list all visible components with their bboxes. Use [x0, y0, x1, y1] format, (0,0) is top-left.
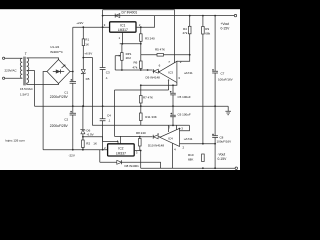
node +22V C3 column	[102, 26, 104, 28]
svg-text:C5 100uF: C5 100uF	[178, 95, 191, 99]
capacitor C1	[70, 72, 76, 107]
wire B plus input	[141, 83, 177, 86]
diode D10	[140, 135, 160, 139]
wire D7 rail	[103, 15, 155, 17]
capacitor C3	[100, 27, 106, 106]
node R10 bottom	[202, 167, 204, 169]
node R3 bottom	[140, 43, 142, 45]
wire +22V riser from bridge	[70, 27, 73, 71]
wire adj to R3	[120, 43, 141, 45]
svg-text:2K2: 2K2	[126, 56, 132, 60]
svg-text:1.5A*2: 1.5A*2	[20, 93, 29, 97]
capacitor C8	[212, 106, 218, 168]
wire IC2 pin1 stub	[119, 136, 121, 143]
top letterbox bar	[0, 0, 240, 9]
wire IC2 adj line	[115, 135, 140, 137]
svg-text:C6 100uF: C6 100uF	[178, 113, 191, 117]
wire IC1 adj stub	[121, 32, 123, 44]
svg-text:220V/AC: 220V/AC	[5, 69, 18, 73]
wire R3-R5 link	[140, 44, 142, 55]
node C8 bottom	[214, 167, 216, 169]
svg-text:D7 IN4001: D7 IN4001	[122, 11, 138, 15]
svg-text:LM317: LM317	[118, 28, 128, 32]
svg-text:0-15V: 0-15V	[218, 157, 228, 161]
resistor R7	[140, 85, 143, 106]
svg-text:LM337: LM337	[116, 151, 126, 155]
node C5 ground	[172, 105, 174, 107]
svg-text:IN4007*4: IN4007*4	[50, 50, 63, 54]
transformer T primary winding	[20, 58, 22, 78]
wire tracking line y125.4	[92, 125, 189, 131]
resistor R5	[141, 54, 190, 57]
wire secondary top tap to bridge	[27, 58, 59, 60]
wire primary upper	[5, 57, 23, 59]
-22V rail	[43, 149, 108, 151]
svg-text:100uF/16V: 100uF/16V	[217, 139, 232, 143]
svg-text:2200uF/25V: 2200uF/25V	[50, 124, 69, 128]
capacitor C7	[212, 16, 218, 107]
wire IC1 out jog	[136, 16, 155, 28]
svg-text:+22V: +22V	[76, 21, 83, 25]
svg-text:IC4: IC4	[168, 136, 173, 140]
resistor R2	[82, 137, 85, 150]
svg-text:kqinc 126 com: kqinc 126 com	[6, 138, 26, 142]
svg-text:-6.9V: -6.9V	[87, 132, 94, 136]
output terminal minus	[235, 167, 237, 169]
node wire B	[140, 84, 142, 86]
zener D5	[81, 58, 86, 107]
diode D8	[117, 160, 122, 164]
svg-text:47k: 47k	[183, 31, 188, 35]
svg-text:R2: R2	[86, 141, 90, 145]
capacitor C5	[170, 85, 176, 106]
svg-text:C1: C1	[64, 91, 68, 95]
svg-text:uA741: uA741	[184, 137, 193, 141]
ground rail	[35, 105, 229, 107]
bottom letterbox bar	[0, 170, 240, 180]
node D7 stub top rail	[102, 15, 104, 17]
wire bridge minus corner down to -22V rail	[43, 72, 47, 150]
svg-text:68K: 68K	[188, 158, 193, 162]
node C7 ground	[214, 105, 216, 107]
capacitor C4	[100, 106, 106, 150]
resistor R3	[140, 27, 143, 44]
svg-text:R7 47K: R7 47K	[143, 95, 153, 99]
svg-text:D5: D5	[86, 77, 90, 81]
output terminal plus	[234, 14, 236, 16]
svg-text:uA741: uA741	[184, 71, 193, 75]
resistor R1	[82, 27, 84, 57]
capacitor C2	[70, 106, 76, 150]
svg-text:C3: C3	[106, 71, 110, 75]
input terminal upper	[3, 57, 5, 59]
input terminal lower	[3, 77, 5, 79]
op-amp IC4	[160, 128, 180, 146]
node R7 bottom	[140, 105, 142, 107]
svg-text:0-15V: 0-15V	[221, 26, 231, 30]
node R1 top	[82, 26, 84, 28]
wire opamp V+ top	[103, 10, 175, 64]
-V output rail	[141, 167, 235, 169]
svg-text:IC3: IC3	[168, 70, 173, 74]
svg-text:R11 33K: R11 33K	[145, 115, 156, 119]
node C5 top	[172, 84, 174, 86]
node R3 top	[140, 26, 142, 28]
wire -6.9V link	[83, 137, 118, 144]
svg-text:1K: 1K	[93, 141, 97, 145]
svg-text:D10 IN4148: D10 IN4148	[148, 144, 164, 148]
svg-text:.1: .1	[105, 76, 108, 80]
wire center tap down	[27, 71, 35, 107]
node C4 bottom	[102, 149, 104, 151]
wire R4 node to opamp pin2	[177, 55, 190, 62]
bridge inner diode symbol	[53, 65, 65, 74]
node C7 top	[214, 15, 216, 17]
svg-text:R8 240: R8 240	[136, 131, 146, 135]
resistor R6	[140, 55, 143, 70]
potentiometer RP1	[115, 44, 123, 70]
ground symbol right end	[225, 106, 231, 115]
node tracking pin3	[179, 128, 181, 130]
node +6.9V	[82, 57, 84, 59]
zener D6	[81, 106, 86, 150]
svg-text:C7: C7	[221, 72, 225, 76]
wire IC2 output	[134, 151, 141, 169]
svg-text:.1: .1	[108, 119, 111, 123]
node IC2 out	[140, 150, 142, 152]
wire IC4 pin2 line	[180, 143, 216, 145]
bridge rectifier D1-4 diamond	[47, 60, 70, 84]
node R2 bottom	[82, 149, 84, 151]
wire C pin4 line	[115, 80, 169, 136]
diode D9	[153, 69, 160, 73]
wire +6.9V over and down	[83, 58, 92, 126]
node C3 ground	[102, 105, 104, 107]
svg-text:T: T	[25, 52, 27, 56]
node R4 top	[189, 15, 191, 17]
diode D7	[115, 14, 120, 18]
node wire A D9 side	[147, 69, 149, 71]
wire D8 branch	[100, 150, 161, 169]
node C1 ground	[72, 105, 74, 107]
node C8 tap	[214, 143, 216, 145]
node RP1 bottom join	[121, 69, 123, 71]
IC1 regulator box	[110, 22, 136, 32]
node -6.9V	[82, 136, 84, 138]
resistor R8	[139, 137, 142, 151]
svg-text:47k: 47k	[133, 65, 138, 69]
svg-text:C2: C2	[64, 118, 68, 122]
svg-text:C4: C4	[107, 114, 111, 118]
svg-text:15.5V/AC: 15.5V/AC	[20, 87, 34, 91]
node R4 bottom	[189, 54, 191, 56]
wire secondary bottom tap to bridge	[27, 84, 59, 85]
wire A adj network	[115, 69, 152, 71]
wire primary lower	[5, 77, 23, 79]
node bridge plus	[72, 71, 74, 73]
node C6 bottom	[172, 125, 174, 127]
svg-text:-22V: -22V	[69, 154, 75, 158]
resistor R10	[202, 154, 205, 162]
svg-text:IC1: IC1	[120, 24, 125, 28]
svg-text:2200uF/25V: 2200uF/25V	[50, 95, 69, 99]
svg-text:IC2: IC2	[118, 147, 123, 151]
+V output rail	[155, 15, 235, 17]
svg-text:1K: 1K	[85, 43, 89, 47]
svg-text:R6: R6	[134, 61, 138, 65]
svg-text:68k: 68k	[205, 31, 210, 35]
node R9 top	[202, 15, 204, 17]
node R8 top	[139, 136, 141, 138]
svg-text:R5 47K: R5 47K	[155, 48, 165, 52]
node C2 bottom	[72, 149, 74, 151]
node adj	[122, 43, 124, 45]
op-amp IC3	[159, 61, 177, 82]
svg-text:R1: R1	[85, 37, 89, 41]
resistor R4	[188, 16, 191, 55]
svg-text:D9 IN4148: D9 IN4148	[146, 76, 161, 80]
wire D7 column	[102, 10, 104, 27]
node wire A R6	[140, 69, 142, 71]
svg-text:D8 IN4001: D8 IN4001	[125, 164, 140, 168]
wire IC4 pin4 stub	[172, 143, 174, 168]
transformer T secondary winding	[27, 58, 29, 85]
node D6 top	[82, 105, 84, 107]
svg-text:U1-4/4: U1-4/4	[50, 45, 59, 49]
svg-text:100uF/16V: 100uF/16V	[218, 78, 233, 82]
wire +22V to IC1 pin3	[73, 26, 110, 28]
svg-text:R3 240: R3 240	[145, 37, 155, 41]
wire IC4 pin7 stub	[168, 125, 170, 132]
svg-text:-Vout: -Vout	[218, 153, 226, 157]
node R10 tap	[202, 143, 204, 145]
resistor R9	[202, 16, 205, 144]
transformer core	[24, 57, 25, 86]
svg-text:+6.9V: +6.9V	[84, 52, 92, 56]
node D5 bottom	[82, 105, 84, 107]
resistor R11	[140, 106, 143, 125]
IC2 regulator box	[108, 144, 135, 156]
capacitor C6	[170, 106, 176, 125]
